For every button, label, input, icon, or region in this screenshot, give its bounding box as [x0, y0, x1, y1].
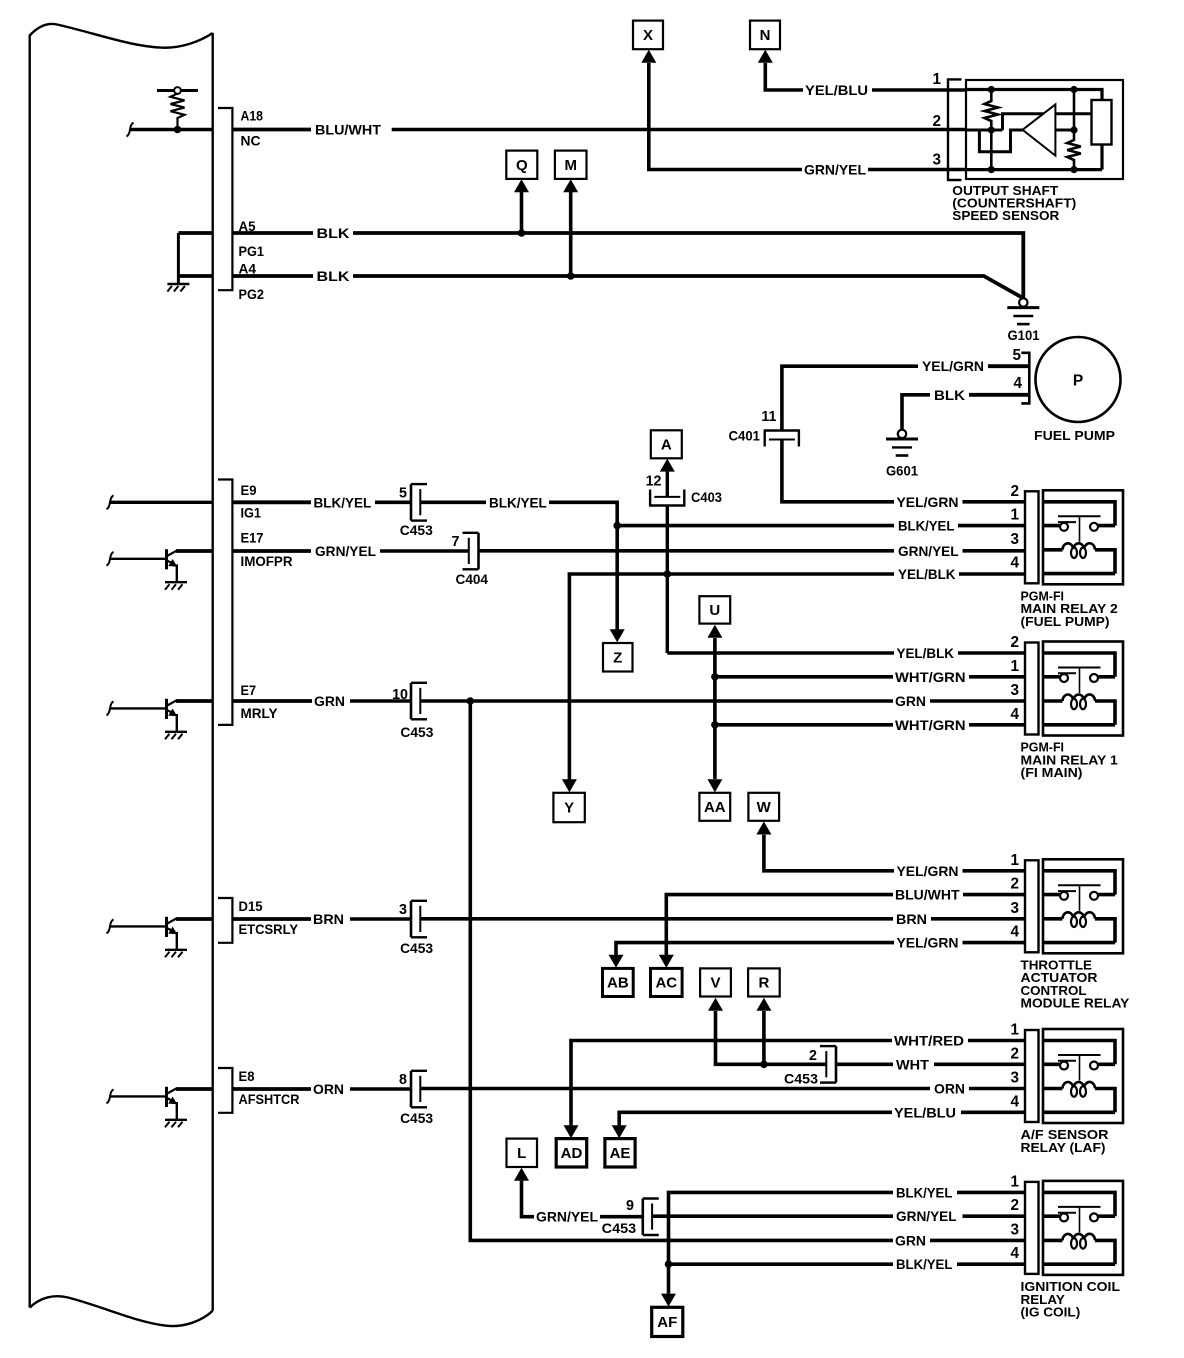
- sensor internal junction dots: [988, 86, 995, 93]
- wire BLK/YEL ignition relay pin 1 / AF branch: [669, 1185, 1026, 1293]
- wire to connector Z: [615, 526, 619, 630]
- svg-text:YEL/BLU: YEL/BLU: [805, 83, 868, 98]
- svg-text:YEL/GRN: YEL/GRN: [897, 864, 959, 879]
- node AE: [605, 1139, 635, 1167]
- svg-text:GRN/YEL: GRN/YEL: [536, 1210, 598, 1225]
- svg-text:GRN: GRN: [895, 694, 926, 709]
- node AD: [556, 1139, 587, 1167]
- wire E17 GRN/YEL: [176, 544, 469, 559]
- svg-text:YEL/BLK: YEL/BLK: [898, 567, 956, 582]
- transistor driver at E8: [107, 1087, 178, 1119]
- arrow into AC: [659, 955, 674, 968]
- svg-text:YEL/GRN: YEL/GRN: [922, 359, 984, 374]
- arrow into U: [707, 625, 722, 638]
- wire YEL/BLK relay 2 pin 4 / branch to Y: [569, 567, 1025, 780]
- svg-text:3: 3: [1010, 1070, 1019, 1087]
- svg-text:1: 1: [1010, 852, 1019, 869]
- resistor (pull-up at pin A18): [157, 87, 198, 129]
- svg-text:1: 1: [1010, 1022, 1019, 1039]
- svg-text:2: 2: [1010, 634, 1019, 651]
- svg-text:2: 2: [932, 113, 941, 130]
- relay PGM-FI main relay 1 (FI main): [1025, 642, 1123, 736]
- svg-text:M: M: [564, 157, 577, 174]
- svg-text:4: 4: [1010, 1093, 1019, 1110]
- svg-text:1: 1: [1010, 1173, 1019, 1190]
- node U: [699, 596, 730, 623]
- arrow into X: [641, 50, 656, 63]
- ECM ground tie for PG1/PG2: [177, 233, 180, 283]
- wire A4 BLK (ground bus to G101): [178, 269, 1021, 297]
- svg-text:10: 10: [392, 687, 408, 703]
- transistor driver at D15: [107, 917, 178, 949]
- connector C453 pin 3: [411, 901, 427, 938]
- svg-text:2: 2: [1010, 876, 1019, 893]
- svg-text:YEL/BLU: YEL/BLU: [894, 1105, 956, 1120]
- svg-text:WHT/GRN: WHT/GRN: [895, 670, 966, 685]
- wire BLU/WHT throttle relay pin 2 / branch to AC: [666, 888, 1025, 955]
- wire WHT/RED A/F relay pin 1 / branch to AD: [571, 1034, 1025, 1126]
- svg-text:3: 3: [932, 152, 941, 169]
- junction dot AF-line / BLK/YEL pin4: [665, 1260, 673, 1268]
- svg-text:AC: AC: [655, 975, 677, 992]
- connector C453 pin 10: [411, 683, 427, 720]
- connector pins E9/IG1 E17/IMOFPR E7/MRLY bracket: [218, 480, 232, 725]
- arrow into W: [756, 822, 771, 835]
- node Y: [553, 793, 584, 822]
- svg-text:FUEL PUMP: FUEL PUMP: [1034, 428, 1115, 443]
- node X: [633, 21, 663, 50]
- junction dot BLK/YEL / Z branch: [613, 522, 621, 530]
- svg-text:GRN/YEL: GRN/YEL: [315, 544, 376, 559]
- svg-text:8: 8: [399, 1072, 407, 1088]
- fuel pump connector bracket: [1021, 353, 1029, 404]
- ground G601: [886, 430, 918, 456]
- svg-text:2: 2: [1010, 1197, 1019, 1214]
- arrow/wire to connector M from A4 bus: [569, 192, 573, 276]
- wire A18 BLU/WHT (to speed sensor pin 2): [127, 123, 967, 138]
- arrow into L: [514, 1168, 529, 1181]
- node AF: [652, 1307, 683, 1336]
- svg-text:3: 3: [1010, 531, 1019, 548]
- svg-text:E17: E17: [241, 531, 264, 546]
- svg-text:MODULE RELAY: MODULE RELAY: [1021, 996, 1130, 1011]
- junction dot U-line / WHT/GRN pin4: [711, 721, 719, 729]
- svg-text:2: 2: [1010, 483, 1019, 500]
- svg-text:A: A: [661, 437, 672, 454]
- svg-text:C453: C453: [602, 1221, 637, 1236]
- svg-text:N: N: [760, 27, 771, 44]
- wire YEL/BLU (speed sensor pin 1 to connector N): [765, 63, 966, 98]
- wire A5 BLK (ground bus to G101): [178, 226, 1023, 298]
- wire BLK/YEL ignition relay pin 4: [669, 1257, 1026, 1272]
- svg-text:G101: G101: [1008, 328, 1040, 343]
- svg-text:4: 4: [1013, 375, 1022, 392]
- node AC: [651, 968, 683, 996]
- wire connector U to AA with taps to relay 1 pins 1,4: [713, 638, 717, 779]
- svg-text:BLK/YEL: BLK/YEL: [489, 495, 547, 510]
- connector C453 pin 8: [411, 1071, 427, 1108]
- svg-text:U: U: [709, 602, 720, 619]
- svg-text:E9: E9: [241, 483, 257, 498]
- svg-text:4: 4: [1010, 706, 1019, 723]
- arrow/wire to connector Q from A5 bus: [520, 192, 524, 233]
- svg-text:BLK: BLK: [317, 269, 350, 284]
- svg-text:1: 1: [1010, 658, 1019, 675]
- svg-text:C404: C404: [456, 572, 489, 587]
- wire GRN long branch to ignition coil relay pin 3: [470, 701, 893, 1240]
- node AB: [603, 968, 634, 996]
- svg-text:GRN/YEL: GRN/YEL: [898, 544, 959, 559]
- svg-text:GRN: GRN: [895, 1233, 926, 1248]
- svg-text:X: X: [643, 27, 653, 44]
- svg-text:Q: Q: [516, 157, 528, 174]
- wire YEL/BLU A/F relay pin 4 / branch to AE: [619, 1105, 1025, 1125]
- svg-text:3: 3: [399, 902, 407, 918]
- svg-text:9: 9: [626, 1198, 634, 1214]
- node L: [507, 1139, 538, 1167]
- arrow into Y: [562, 779, 577, 792]
- svg-text:RELAY (LAF): RELAY (LAF): [1021, 1140, 1106, 1155]
- svg-text:W: W: [757, 799, 772, 816]
- junction dot GRN branch down: [467, 697, 475, 705]
- wire E9 BLK/YEL: [107, 495, 411, 510]
- svg-text:BLK/YEL: BLK/YEL: [896, 1257, 952, 1272]
- svg-text:SPEED SENSOR: SPEED SENSOR: [952, 208, 1060, 223]
- arrow into N: [758, 50, 773, 63]
- svg-text:E7: E7: [241, 683, 257, 698]
- svg-text:GRN: GRN: [314, 694, 345, 709]
- wire D15 BRN to throttle relay pin 3: [176, 912, 411, 927]
- svg-text:R: R: [758, 975, 769, 992]
- node A: [651, 430, 682, 458]
- svg-text:BLK/YEL: BLK/YEL: [898, 519, 954, 534]
- arrow into AF: [661, 1294, 676, 1307]
- arrow into AA: [707, 779, 722, 792]
- svg-text:12: 12: [646, 474, 662, 490]
- svg-text:L: L: [517, 1145, 526, 1162]
- svg-text:BLU/WHT: BLU/WHT: [315, 123, 382, 138]
- svg-text:G601: G601: [886, 464, 918, 479]
- junction dot A-line / YEL/BLK relay2 pin4: [664, 570, 672, 578]
- svg-text:11: 11: [761, 409, 776, 425]
- svg-text:C453: C453: [400, 941, 433, 956]
- connector C404 pin 7: [463, 533, 479, 570]
- svg-text:4: 4: [1010, 555, 1019, 572]
- svg-text:A18: A18: [241, 109, 264, 124]
- svg-text:5: 5: [399, 485, 407, 501]
- wire GRN/YEL (speed sensor pin 3 to connector X): [649, 63, 966, 178]
- wire connector A to C403 to relay 1 pin 2 YEL/BLK: [667, 471, 1025, 661]
- connector C403 pin 12: [649, 490, 685, 506]
- svg-text:AE: AE: [610, 1145, 631, 1162]
- svg-text:E8: E8: [239, 1069, 255, 1084]
- connector pin E8/AFSHTCR bracket: [218, 1068, 232, 1113]
- connector C453 pin 9: [643, 1199, 659, 1236]
- fuel pump P: [1036, 337, 1121, 422]
- svg-text:WHT: WHT: [896, 1057, 930, 1072]
- node AA: [699, 793, 730, 821]
- svg-text:7: 7: [452, 534, 460, 550]
- svg-text:P: P: [1073, 373, 1083, 390]
- svg-text:Z: Z: [613, 649, 622, 666]
- wire BLK (fuel pump pin 4 to G601): [902, 388, 1029, 430]
- wire YEL/GRN throttle relay pin 4 / branch to AB: [616, 936, 1025, 955]
- svg-text:1: 1: [1010, 507, 1019, 524]
- svg-text:C453: C453: [400, 1111, 433, 1126]
- arrow into AE: [612, 1125, 627, 1138]
- svg-text:BLK/YEL: BLK/YEL: [896, 1185, 952, 1200]
- wire connector L GRN/YEL to ignition coil relay pin 2: [522, 1181, 642, 1225]
- svg-text:C403: C403: [691, 490, 722, 505]
- wire BLK/YEL C453 to relay 2 pin 1: [420, 495, 1025, 533]
- junction dot resistor/A18 wire: [174, 126, 182, 134]
- arrow into A: [660, 459, 675, 472]
- svg-text:3: 3: [1010, 1221, 1019, 1238]
- svg-text:D15: D15: [239, 899, 263, 914]
- svg-text:(FUEL PUMP): (FUEL PUMP): [1021, 614, 1110, 629]
- sensor connector bracket: [948, 79, 962, 180]
- svg-text:ORN: ORN: [313, 1082, 344, 1097]
- relay PGM-FI main relay 2 (fuel pump): [1025, 490, 1123, 584]
- svg-text:GRN/YEL: GRN/YEL: [896, 1209, 957, 1224]
- svg-text:WHT/GRN: WHT/GRN: [895, 718, 966, 733]
- svg-text:Y: Y: [564, 800, 574, 817]
- arrow into AD: [564, 1125, 579, 1138]
- arrow into R: [756, 998, 771, 1011]
- svg-text:BRN: BRN: [313, 912, 344, 927]
- svg-text:WHT/RED: WHT/RED: [894, 1034, 964, 1049]
- relay A/F sensor relay (LAF): [1025, 1029, 1123, 1123]
- svg-text:YEL/BLK: YEL/BLK: [897, 646, 955, 661]
- wire WHT/GRN relay 1 pin 1: [715, 670, 1025, 685]
- svg-text:C453: C453: [400, 725, 433, 740]
- node Z: [603, 643, 633, 672]
- wire connector W to throttle relay pin 1 YEL/GRN: [764, 835, 1025, 879]
- node W: [748, 793, 779, 821]
- svg-text:BLK/YEL: BLK/YEL: [314, 495, 372, 510]
- svg-text:1: 1: [932, 71, 941, 88]
- svg-text:2: 2: [809, 1048, 817, 1064]
- svg-text:AA: AA: [704, 799, 726, 816]
- transistor driver at E17: [107, 549, 178, 581]
- svg-text:3: 3: [1010, 682, 1019, 699]
- svg-text:BLU/WHT: BLU/WHT: [895, 888, 960, 903]
- svg-text:IMOFPR: IMOFPR: [241, 554, 293, 569]
- svg-text:AD: AD: [561, 1145, 583, 1162]
- transistor driver at E7: [107, 699, 178, 731]
- connector C453 pin 2: [820, 1046, 836, 1083]
- junction dot U-line / WHT/GRN pin1: [711, 673, 719, 681]
- node N: [750, 21, 780, 50]
- connector pins A18/NC A5/PG1 A4/PG2 bracket: [218, 108, 232, 290]
- svg-text:ETCSRLY: ETCSRLY: [239, 922, 299, 937]
- svg-text:C453: C453: [400, 523, 433, 538]
- wire E7 GRN to relay 1 pin 3 and ignition coil relay pin 3: [176, 694, 411, 709]
- svg-text:4: 4: [1010, 924, 1019, 941]
- svg-text:(IG COIL): (IG COIL): [1021, 1305, 1081, 1320]
- svg-text:4: 4: [1010, 1245, 1019, 1262]
- svg-text:YEL/GRN: YEL/GRN: [897, 495, 959, 510]
- svg-text:ORN: ORN: [934, 1082, 965, 1097]
- relay ignition coil relay (IG coil): [1025, 1181, 1123, 1275]
- svg-text:2: 2: [1010, 1045, 1019, 1062]
- svg-text:GRN/YEL: GRN/YEL: [804, 163, 866, 178]
- node M: [555, 151, 587, 179]
- wire WHT/GRN relay 1 pin 4: [715, 718, 1025, 733]
- svg-text:PG2: PG2: [239, 287, 265, 302]
- svg-text:V: V: [710, 975, 720, 992]
- ECM/PCM module box (torn edges): [30, 24, 213, 1326]
- junction dot M-arrow / A4 bus: [567, 272, 575, 280]
- svg-text:BLK: BLK: [317, 226, 350, 241]
- svg-text:BLK: BLK: [934, 388, 965, 403]
- svg-text:AB: AB: [607, 975, 629, 992]
- arrow into V: [708, 998, 723, 1011]
- svg-text:AFSHTCR: AFSHTCR: [239, 1092, 300, 1107]
- svg-text:MRLY: MRLY: [241, 706, 278, 721]
- svg-text:NC: NC: [241, 134, 261, 149]
- node Q: [506, 151, 537, 179]
- svg-text:YEL/GRN: YEL/GRN: [897, 936, 959, 951]
- svg-text:PG1: PG1: [239, 244, 265, 259]
- svg-text:(FI MAIN): (FI MAIN): [1021, 765, 1083, 780]
- svg-text:AF: AF: [657, 1314, 677, 1331]
- ground G101: [1007, 298, 1039, 324]
- wire GRN/YEL C404 to relay 2 pin 3: [479, 544, 1026, 559]
- arrow into Z: [610, 629, 625, 642]
- svg-text:3: 3: [1010, 900, 1019, 917]
- svg-text:C453: C453: [784, 1071, 818, 1086]
- svg-text:BRN: BRN: [896, 912, 927, 927]
- svg-text:C401: C401: [729, 429, 761, 444]
- connector C401 pin 11: [764, 431, 800, 447]
- junction dot V/R join: [760, 1061, 768, 1069]
- output shaft (countershaft) speed sensor U1: [966, 80, 1123, 179]
- svg-text:IG1: IG1: [241, 506, 262, 521]
- connector pin D15/ETCSRLY bracket: [218, 898, 232, 943]
- junction dot Q-arrow / A5 bus: [518, 229, 526, 237]
- connector C453 pin 5: [411, 484, 427, 520]
- wire WHT A/F relay pin 2 from V and R: [716, 1011, 827, 1064]
- svg-text:5: 5: [1012, 347, 1021, 364]
- wire YEL/GRN C401 to PGM-FI relay 2 pin 2: [782, 440, 894, 502]
- relay throttle actuator control module relay: [1025, 859, 1123, 953]
- wire YEL/GRN (fuel pump pin 5): [782, 359, 1029, 430]
- arrow into AB: [609, 955, 624, 968]
